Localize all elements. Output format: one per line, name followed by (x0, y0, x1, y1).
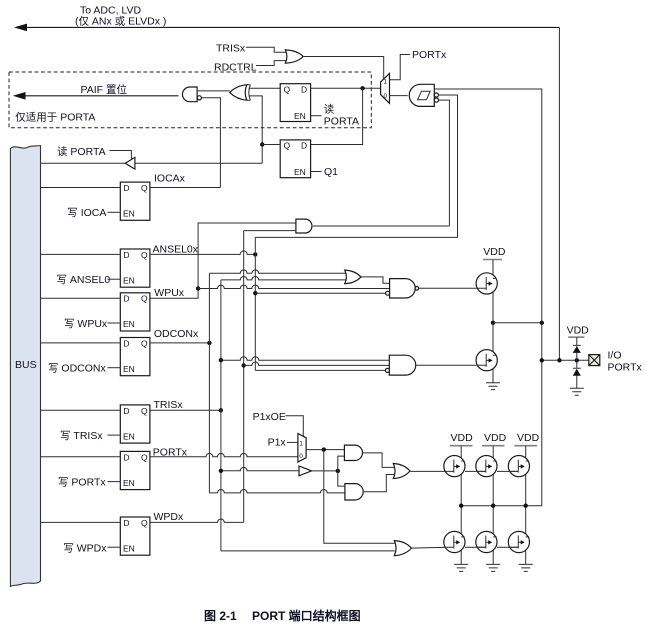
I/O pin pad (589, 355, 600, 366)
svg-text:写 PORTx: 写 PORTx (58, 477, 106, 489)
wire mux 0 input from schmitt output (390, 95, 408, 97)
svg-text:写 ANSEL0: 写 ANSEL0 (57, 274, 111, 286)
wire FF1 D input from mux output with node (311, 87, 381, 89)
flip-flop TRIS register (120, 405, 150, 443)
bubble N1 in3 (386, 291, 390, 295)
svg-text:VDD: VDD (517, 432, 540, 444)
svg-text:D: D (123, 183, 129, 193)
wire XOR bottom input down to FF2 Q line and read buffer (249, 96, 263, 163)
wire P1x stub to mux M2 input 1 (287, 441, 298, 443)
svg-text:D: D (123, 406, 129, 416)
wire read label to buffer top (110, 151, 132, 160)
svg-text:仅适用于 PORTA: 仅适用于 PORTA (15, 112, 95, 124)
flip-flop FF2 (Q1 latch) (280, 140, 310, 178)
wire pin net vertical down to driver drain bus (461, 323, 542, 506)
wire RDCTRL stub into OR gate (256, 61, 287, 66)
bubble N2 in3 (385, 368, 389, 372)
wire WPDx Q to V243.7 with hop over V221 (150, 519, 244, 522)
wire driver column 1 (460, 446, 462, 565)
transistor M8 (row2 col3) (508, 531, 529, 552)
flip-flop ANSEL0 register (120, 249, 150, 287)
ground (driver col1) (454, 564, 468, 571)
flip-flop ODCON register (120, 338, 150, 376)
svg-text:PORTA: PORTA (324, 116, 359, 128)
or-gate OR3 (393, 464, 410, 479)
svg-text:VDD: VDD (483, 246, 506, 258)
wire ANSEL0x branch to NAND in3 (255, 292, 385, 294)
flip-flop IOCA register (120, 182, 150, 220)
svg-text:写 IOCA: 写 IOCA (67, 207, 106, 219)
and-gate AND2 (345, 484, 363, 500)
node ANSEL0x branch to NAND in3 (253, 291, 257, 295)
or-gate OR1b (pull-up OR) (345, 270, 361, 284)
svg-text:PORT 端口结构框图: PORT 端口结构框图 (252, 608, 361, 623)
flip-flop FF1 (PORTA read latch) (280, 84, 310, 122)
or-gate OR2 (394, 541, 411, 556)
wire pin line (542, 359, 589, 361)
wire IOCAx Q output up to A1 (150, 187, 221, 189)
node pin-ADC (557, 358, 561, 362)
wire ADC vertical down to pin node (558, 27, 560, 360)
wire OR3 output to driver row1 gates (410, 470, 448, 472)
and-gate A1 (IOC, mirrored left) (182, 87, 197, 102)
svg-text:Q: Q (141, 406, 148, 416)
svg-text:D: D (301, 85, 307, 95)
svg-text:Q: Q (141, 338, 148, 348)
wire WPUx branch to NAND in2 with hops (198, 285, 390, 288)
wire pull-down to ground (492, 371, 494, 383)
svg-text:BUS: BUS (15, 359, 37, 371)
wire V221 vertical (TRISx net) (220, 280, 222, 551)
svg-text:I/O: I/O (608, 349, 622, 361)
wire P1xOE stub to mux M2 select (286, 416, 304, 437)
wire junction down to pull-down transistor (492, 323, 494, 371)
wire 写 PORTx EN stub (108, 481, 121, 483)
VDD bar driver 1 (450, 445, 473, 447)
VDD bar (pull-up) (483, 259, 502, 261)
svg-text:写 WPUx: 写 WPUx (64, 318, 108, 330)
svg-text:D: D (123, 294, 129, 304)
svg-text:IOCAx: IOCAx (154, 173, 186, 185)
nand-gate N1 (pull-up NAND) (390, 279, 416, 298)
wire BUS to ODCON D (41, 342, 121, 344)
bubble N1 output (415, 287, 419, 291)
transistor M5 (row1 col3) (508, 456, 529, 477)
flip-flop WPU register (120, 293, 150, 331)
wire node down to FF2 D (311, 88, 363, 144)
svg-text:Q: Q (141, 294, 148, 304)
svg-text:TRISx: TRISx (216, 43, 246, 55)
wire PAIF set with left arrowhead (22, 95, 179, 97)
svg-text:D: D (123, 518, 129, 528)
svg-text:写 TRISx: 写 TRISx (60, 430, 103, 442)
dashed box PORTA only (9, 72, 371, 128)
wire node to pin net (493, 322, 542, 324)
wire FF1 EN stub (311, 115, 322, 117)
svg-text:EN: EN (123, 275, 135, 285)
svg-text:(仅 ANx 或 ELVDx ): (仅 ANx 或 ELVDx ) (75, 16, 166, 28)
wire A2 output up riser V449 to S1 enable1 (313, 225, 450, 227)
wire WPDx branch to 3AND in2 with hop (244, 362, 390, 365)
buffer B1 (read PORTA tri-state, points left) (125, 157, 135, 169)
and-gate AND1 (344, 445, 362, 460)
bubble on A1 lower input (197, 96, 201, 100)
wire row2 gate link 1-2 (444, 546, 486, 548)
wire TRISx stub into OR gate (246, 47, 287, 52)
wire ANSEL0x Q line with hop over V243.7 and end dot (150, 251, 255, 255)
wire ODCONx to OR1b top input with hops (209, 270, 345, 273)
svg-text:EN: EN (294, 167, 306, 177)
wire A1 lower input from IOCAx (201, 98, 220, 188)
svg-text:Q: Q (141, 518, 148, 528)
VDD bar driver 2 (482, 445, 505, 447)
svg-text:WPDx: WPDx (154, 511, 184, 523)
svg-text:EN: EN (123, 209, 135, 219)
wire OR1b output jog to NAND in1 (361, 277, 390, 283)
wire row2 gate link 2-3 (497, 546, 518, 548)
svg-text:EN: EN (123, 431, 135, 441)
svg-text:PAIF 置位: PAIF 置位 (81, 83, 128, 96)
flip-flop PORT register (120, 451, 150, 489)
node pin-diodes (575, 358, 579, 362)
svg-text:Q: Q (141, 452, 148, 462)
wire node down to AND2 in1 (338, 471, 345, 486)
node pull-up/down junction (491, 321, 495, 325)
transistor M3 (row1 col1) (444, 456, 465, 477)
svg-text:Q1: Q1 (324, 166, 338, 178)
svg-text:ANSEL0x: ANSEL0x (153, 244, 199, 256)
transistor Q1 pull-up (476, 273, 497, 294)
wire S1 enable2 to ANSEL0x net (255, 95, 457, 237)
svg-text:EN: EN (123, 478, 135, 488)
svg-text:1: 1 (299, 440, 303, 447)
wire PORTx Q to mux M2 with hops (150, 453, 298, 456)
svg-text:P1xOE: P1xOE (253, 411, 286, 423)
svg-text:Q: Q (141, 250, 148, 260)
wire 写 ODCONx EN stub (108, 367, 121, 369)
svg-text:0: 0 (384, 93, 388, 100)
diode D2 (VSS to pin) (573, 360, 581, 388)
mux M2 (output data mux) (298, 434, 306, 463)
svg-text:1: 1 (384, 78, 388, 85)
svg-text:EN: EN (123, 319, 135, 329)
ground (driver col2) (486, 564, 500, 571)
buffer B2 (TRIS buffer, points right) (299, 466, 312, 476)
wire ANSEL0x to 3AND in3 (255, 369, 385, 371)
svg-text:Q: Q (284, 141, 291, 151)
wire row1 gate link 2-3 (497, 470, 518, 472)
transistor M6 (row2 col1) (444, 531, 465, 552)
wire BUS to ANSEL0 D (41, 253, 121, 255)
svg-text:EN: EN (294, 111, 306, 121)
wire FF2 EN stub (311, 171, 322, 173)
wire VDD to pull-up transistor (492, 260, 494, 323)
wire B2 output to AND nodes (312, 470, 338, 472)
wire 写 WPUx EN stub (108, 322, 121, 324)
wire AND1 output jog to OR3 in1 (363, 453, 395, 468)
wire BUS to TRIS D (41, 409, 121, 411)
wire ODCONx Q to V209 with end dot (150, 342, 210, 344)
svg-text:D: D (301, 141, 307, 151)
wire BUS to PORT D (41, 456, 121, 458)
wire BUS to IOCA D (41, 187, 121, 189)
transistor M4 (row1 col2) (476, 456, 497, 477)
wire XOR out to A1 top input (197, 90, 230, 92)
or-gate U1 (TRISx|RDCTRL) (285, 50, 303, 63)
wire PORTx stub down to mux 1 input (390, 55, 411, 80)
wire BUS to WPU D (41, 297, 121, 299)
wire 写 IOCA EN stub (108, 211, 121, 213)
wire A2 bottom input from V243.7 (WPDx) (244, 230, 296, 232)
wire M2 output to AND1 with node (306, 449, 344, 451)
wire FF2 Q to node (262, 144, 280, 146)
diode D1 (pin to VDD) (573, 337, 581, 360)
svg-text:读 PORTA: 读 PORTA (57, 145, 106, 158)
node WPDx branch to 3AND (242, 363, 246, 367)
node on pin vertical (540, 321, 544, 325)
wire S1 enable1 to A2 output (439, 100, 450, 226)
svg-text:EN: EN (123, 543, 135, 553)
wire BUS to WPD D (41, 521, 121, 523)
wire N2 output to pull-down transistor gate (416, 364, 477, 366)
svg-text:写 WPDx: 写 WPDx (63, 543, 107, 555)
wire WPUx Q up riser V198 to A2 top input (150, 223, 296, 298)
wire 写 ANSEL0 EN stub (108, 278, 121, 280)
wire driver column 3 (525, 446, 527, 565)
bubble S1 enable 2 (434, 98, 438, 102)
svg-text:D: D (123, 452, 129, 462)
BUS bar (10, 146, 40, 587)
ground (pull-down) (486, 383, 500, 390)
wire TRISx to OR1b bottom input with hops (221, 276, 346, 279)
wire buffer input from node V262 (135, 162, 262, 164)
wire OR out to mux M1 select (303, 57, 384, 80)
bubble S1 enable 1 (434, 93, 438, 97)
wire to ADC with left arrowhead (24, 26, 559, 28)
svg-text:VDD: VDD (567, 325, 590, 337)
svg-text:VDD: VDD (484, 432, 507, 444)
svg-text:TRISx: TRISx (154, 399, 184, 411)
node junction on FF2 Q line (260, 142, 264, 146)
svg-text:图 2-1: 图 2-1 (204, 609, 237, 623)
mux M1 (read mux) (381, 73, 390, 103)
wire TRISx down to OR2 bottom input (221, 550, 395, 552)
wire TRIS buffer input from V221 (221, 467, 299, 470)
wire AND2 output jog to OR3 in2 (363, 475, 394, 492)
flip-flop WPD register (120, 517, 150, 555)
svg-text:WPUx: WPUx (154, 287, 184, 299)
wire M2 output down to OR2 top input (324, 450, 395, 544)
wire N1 output to pull-up pFET gate (419, 287, 477, 289)
wire 写 TRISx EN stub (108, 434, 121, 436)
and-gate A2 (mid AND) (296, 219, 312, 233)
svg-text:EN: EN (123, 364, 135, 374)
wire S1 pin input from pin net (434, 89, 542, 323)
VDD bar driver 3 (514, 445, 537, 447)
svg-text:读: 读 (324, 103, 335, 116)
svg-text:0: 0 (299, 453, 303, 460)
node pin-schmitt (540, 358, 544, 362)
schmitt hysteresis symbol (418, 91, 431, 100)
svg-text:Q: Q (141, 183, 148, 193)
svg-text:写 ODCONx: 写 ODCONx (48, 363, 106, 375)
svg-text:ODCONx: ODCONx (154, 328, 199, 340)
transistor Q2 pull-down (476, 350, 497, 371)
transistor M7 (row2 col2) (476, 531, 497, 552)
ground (pin clamp) (570, 388, 584, 395)
wire OR2 output to driver row2 gates (412, 546, 449, 549)
wire TRISx Q to V221 with end dot (150, 409, 221, 411)
svg-text:P1x: P1x (268, 437, 287, 449)
wire V209 vertical (ODCONx net) (208, 273, 210, 493)
node WPUx branch (196, 286, 200, 290)
driver drain bus nodes (459, 504, 463, 508)
wire node up to AND1 in2 (338, 456, 345, 471)
svg-text:D: D (123, 250, 129, 260)
wire ODCONx branch to AND2 in2 with hops (209, 490, 345, 493)
schmitt buffer S1 (input buffer, mirrored AND shape) (409, 84, 434, 106)
wire driver column 2 (492, 446, 494, 565)
xor-gate X1 (mirrored left) (230, 85, 247, 101)
wire ANSEL0x riser V255.3 (254, 237, 256, 370)
wire V243.7 vertical (WPDx net) (243, 231, 245, 523)
and-gate N2 (pull-down 3AND) (389, 355, 415, 375)
svg-text:PORTx: PORTx (608, 362, 643, 374)
ground (driver col3) (519, 564, 533, 571)
wire TRISx branch to 3AND in1 with hops (221, 357, 389, 360)
VDD bar (pin clamp) (568, 336, 584, 338)
wire XOR top input from FF1 Q (249, 87, 281, 89)
svg-text:VDD: VDD (451, 432, 474, 444)
svg-text:D: D (123, 338, 129, 348)
svg-text:PORTx: PORTx (412, 49, 447, 61)
wire buffer output to BUS (41, 162, 126, 164)
wire 写 WPDx EN stub (108, 546, 121, 548)
svg-text:Q: Q (284, 85, 291, 95)
wire row1 gate link 1-2 (444, 470, 486, 472)
